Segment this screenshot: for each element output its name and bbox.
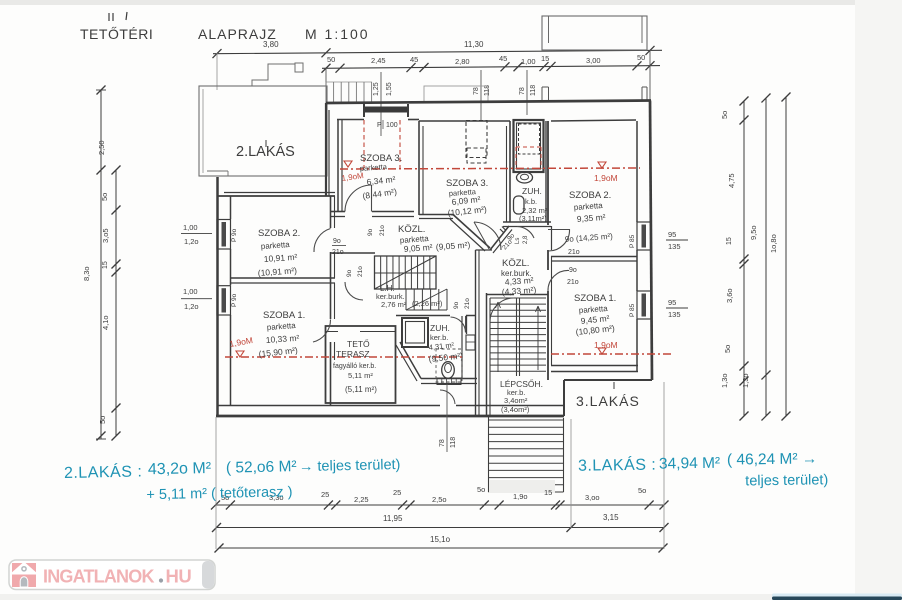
svg-text:43,2o M²: 43,2o M²	[148, 460, 212, 478]
svg-text:15,1o: 15,1o	[430, 535, 451, 544]
svg-text:8,3o: 8,3o	[82, 266, 91, 281]
svg-text:5,11 m²: 5,11 m²	[348, 371, 373, 380]
svg-text:3,00: 3,00	[586, 56, 601, 65]
svg-text:4,1o: 4,1o	[101, 315, 110, 330]
svg-text:21o: 21o	[464, 298, 471, 309]
svg-text:3.LAKÁS: 3.LAKÁS	[576, 393, 640, 409]
svg-text:(3,4om²): (3,4om²)	[501, 405, 530, 414]
svg-text:11,95: 11,95	[383, 514, 403, 523]
svg-text:1,00: 1,00	[183, 223, 198, 232]
svg-text:135: 135	[668, 242, 681, 251]
svg-text:SZOBA 1.: SZOBA 1.	[263, 310, 305, 321]
svg-text:TERASZ: TERASZ	[336, 349, 370, 359]
svg-text:25: 25	[393, 488, 401, 497]
svg-text:5o: 5o	[723, 345, 732, 353]
svg-text:+ 5,11 m² ( tetőterasz ): + 5,11 m² ( tetőterasz )	[146, 484, 292, 503]
svg-text:5o: 5o	[100, 193, 109, 201]
svg-text:15: 15	[541, 54, 549, 63]
svg-text:ZUH.: ZUH.	[522, 186, 542, 196]
svg-text:2.LAKÁS :: 2.LAKÁS :	[64, 461, 143, 482]
svg-text:2,45: 2,45	[371, 56, 386, 65]
svg-text:P 85: P 85	[629, 234, 636, 248]
svg-text:1,3o: 1,3o	[720, 373, 729, 388]
svg-text:25: 25	[321, 490, 329, 499]
svg-text:1,2o: 1,2o	[184, 302, 199, 311]
svg-text:95: 95	[668, 230, 676, 239]
svg-text:15: 15	[544, 488, 552, 497]
svg-text:78: 78	[439, 439, 446, 447]
svg-text:2.LAKÁS: 2.LAKÁS	[236, 143, 295, 160]
svg-text:5o: 5o	[98, 416, 107, 424]
svg-text:9o: 9o	[453, 301, 460, 309]
svg-text:21o: 21o	[357, 266, 364, 277]
svg-text:9o: 9o	[367, 228, 374, 236]
svg-text:KÖZL.: KÖZL.	[502, 258, 529, 269]
svg-text:1,3o: 1,3o	[741, 373, 750, 388]
svg-text:118: 118	[450, 437, 457, 448]
svg-text:3,o5: 3,o5	[101, 228, 110, 243]
svg-text:3,80: 3,80	[263, 40, 279, 49]
svg-text:78: 78	[519, 87, 526, 95]
svg-text:21o: 21o	[567, 279, 579, 286]
svg-text:M 1:100: M 1:100	[305, 26, 370, 42]
svg-text:9o: 9o	[569, 267, 577, 274]
svg-text:21o: 21o	[332, 249, 344, 256]
svg-text:5o: 5o	[477, 485, 485, 494]
svg-text:4,75: 4,75	[727, 173, 736, 188]
svg-text:HU: HU	[166, 566, 192, 587]
svg-text:5o: 5o	[638, 486, 646, 495]
svg-text:fagyálló ker.b.: fagyálló ker.b.	[333, 363, 376, 370]
svg-text:3,4om²: 3,4om²	[504, 396, 528, 405]
svg-text:(3,11m²): (3,11m²)	[519, 214, 547, 223]
svg-text:2,76 m²: 2,76 m²	[381, 300, 407, 309]
svg-text:1,9oM: 1,9oM	[594, 173, 618, 183]
svg-text:15: 15	[102, 261, 109, 269]
svg-text:15: 15	[726, 237, 733, 245]
svg-text:→ teljes terület): → teljes terület)	[299, 457, 401, 475]
svg-text:SZOBA 1.: SZOBA 1.	[574, 293, 616, 304]
svg-text:21o: 21o	[379, 225, 386, 236]
svg-text:SZOBA 2.: SZOBA 2.	[569, 190, 611, 201]
svg-text:3.LAKÁS :: 3.LAKÁS :	[578, 455, 657, 475]
svg-text:TETŐ: TETŐ	[347, 339, 370, 349]
svg-text:2,25: 2,25	[354, 495, 369, 504]
svg-text:95: 95	[668, 298, 676, 307]
svg-text:118: 118	[530, 85, 537, 96]
svg-text:( 46,24 M² →: ( 46,24 M² →	[727, 450, 818, 468]
svg-text:TETŐTÉRI: TETŐTÉRI	[80, 26, 153, 42]
svg-text:teljes terület): teljes terület)	[745, 472, 828, 489]
svg-text:3,6o: 3,6o	[725, 288, 734, 303]
svg-text:78: 78	[473, 87, 480, 95]
svg-text:(2,26 m²): (2,26 m²)	[412, 299, 443, 308]
svg-text:2,80: 2,80	[455, 57, 470, 66]
svg-text:9o: 9o	[333, 238, 341, 245]
svg-text:k.b.: k.b.	[525, 197, 537, 206]
svg-text:50: 50	[327, 55, 335, 64]
svg-text:1,25: 1,25	[373, 82, 380, 96]
svg-text:1,00: 1,00	[183, 287, 198, 296]
svg-text:1,9o: 1,9o	[513, 492, 528, 501]
svg-text:2,5o: 2,5o	[432, 495, 447, 504]
svg-text:9,35 m²: 9,35 m²	[576, 212, 606, 224]
svg-text:45: 45	[499, 54, 507, 63]
svg-text:1,55: 1,55	[386, 82, 393, 96]
svg-text:50: 50	[637, 53, 645, 62]
svg-text:11,30: 11,30	[464, 40, 484, 49]
svg-text:1o,8o: 1o,8o	[769, 234, 778, 253]
svg-text:2,8: 2,8	[523, 235, 529, 244]
svg-text:3,oo: 3,oo	[585, 493, 600, 502]
svg-text:(5,11 m²): (5,11 m²)	[345, 385, 377, 394]
svg-text:ZUH.: ZUH.	[430, 323, 450, 333]
svg-text:KÖZL.: KÖZL.	[398, 224, 425, 235]
svg-text:21o: 21o	[568, 249, 580, 256]
svg-text:INGATLANOK: INGATLANOK	[43, 567, 154, 587]
svg-text:2,50: 2,50	[97, 140, 106, 155]
svg-text:Ls: Ls	[515, 238, 521, 244]
svg-text:135: 135	[668, 310, 681, 319]
svg-text:P: P	[377, 122, 382, 129]
svg-text:1,2o: 1,2o	[184, 237, 199, 246]
svg-text:9,5o: 9,5o	[749, 225, 758, 240]
svg-text:100: 100	[386, 122, 398, 129]
svg-text:34,94 M²: 34,94 M²	[659, 455, 720, 473]
svg-text:P 9o: P 9o	[231, 293, 238, 307]
svg-text:5o: 5o	[720, 111, 729, 119]
svg-text:( 52,o6 M²: ( 52,o6 M²	[226, 458, 297, 476]
svg-text:45: 45	[410, 55, 418, 64]
svg-text:1,00: 1,00	[521, 57, 536, 66]
svg-text:P 9o: P 9o	[231, 228, 238, 242]
svg-text:9,05 m²: 9,05 m²	[403, 242, 433, 254]
svg-text:3,15: 3,15	[603, 513, 619, 522]
svg-text:9o: 9o	[346, 269, 353, 277]
svg-text:SZOBA 2.: SZOBA 2.	[258, 228, 300, 239]
svg-text:P 85: P 85	[629, 303, 636, 317]
